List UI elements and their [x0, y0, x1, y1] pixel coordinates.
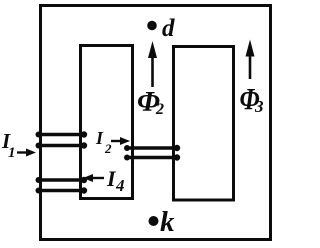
svg-text:2: 2 — [104, 141, 112, 156]
svg-text:4: 4 — [115, 176, 125, 195]
svg-text:2: 2 — [155, 101, 164, 118]
svg-text:k: k — [160, 206, 175, 238]
svg-text:1: 1 — [8, 145, 16, 161]
svg-text:d: d — [162, 15, 175, 42]
svg-text:3: 3 — [254, 97, 264, 116]
svg-text:I: I — [95, 128, 104, 148]
